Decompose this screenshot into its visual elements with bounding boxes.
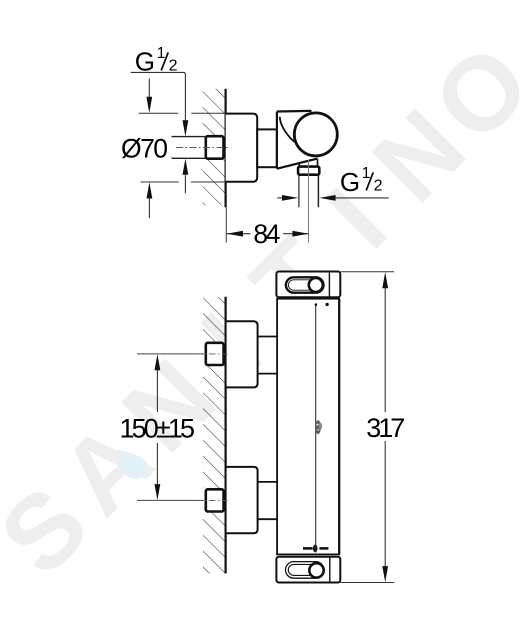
outlet neck [298,163,300,167]
valve body [277,110,318,168]
watermark droplet logo [118,450,148,479]
svg-text:2: 2 [374,177,383,194]
upper s-union [258,336,278,338]
dimension 317 [341,272,406,583]
outlet pipe [298,175,300,207]
escutcheon (wall flange) [226,114,258,182]
extension line top of escutcheon [139,112,179,114]
body centerline [315,305,317,547]
outlet nut [298,167,319,175]
wall surface edge line [225,89,227,208]
bottom handle stadium [286,562,325,579]
label G 1/2 (top) [131,45,189,136]
thread profile at wall [224,139,225,156]
gap in wall for pipe [200,137,226,159]
svg-text:1: 1 [362,165,371,182]
lower escutcheon block [226,467,258,533]
extension line bottom of escutcheon [141,181,179,183]
concave transition curve [280,117,294,142]
wall (section, hatched) [203,297,226,574]
dimension 150±15 [120,354,196,500]
svg-text:317: 317 [366,413,405,443]
handle knob circle [294,113,337,156]
screw dots [315,303,318,306]
outlet centerline [308,160,310,243]
svg-text:84: 84 [253,219,280,249]
svg-text:Ø70: Ø70 [121,133,168,163]
wall (section, hatched) [200,89,226,208]
dimension 84 [226,207,308,249]
svg-text:G: G [340,167,360,197]
thread profile upper [224,346,225,362]
lower wall nut [206,489,224,511]
supply pipe centerline [176,147,230,149]
dimension Ø70 [121,79,168,219]
thermostat body [277,299,339,555]
svg-text:1: 1 [157,45,166,62]
upper supply centerline [137,353,204,355]
top handle stadium [286,277,324,292]
lower s-union [258,481,278,483]
top cap [276,272,340,298]
dimension G 1/2 (outlet) [277,165,389,201]
grohe emblem [315,420,322,434]
G1/2 thread arrow (up) [183,159,189,194]
svg-text:150±15: 150±15 [120,414,196,444]
bottom cap [276,557,340,583]
supply pipe through wall [172,136,206,138]
top handle circle [309,278,323,292]
supply nut [206,136,224,159]
temperature mark [303,544,328,553]
step cylinder [257,129,277,167]
lower supply centerline [137,499,204,501]
upper wall nut [206,343,224,365]
bottom handle circle [309,563,323,577]
upper escutcheon block [226,321,258,387]
thread profile lower [224,492,225,508]
